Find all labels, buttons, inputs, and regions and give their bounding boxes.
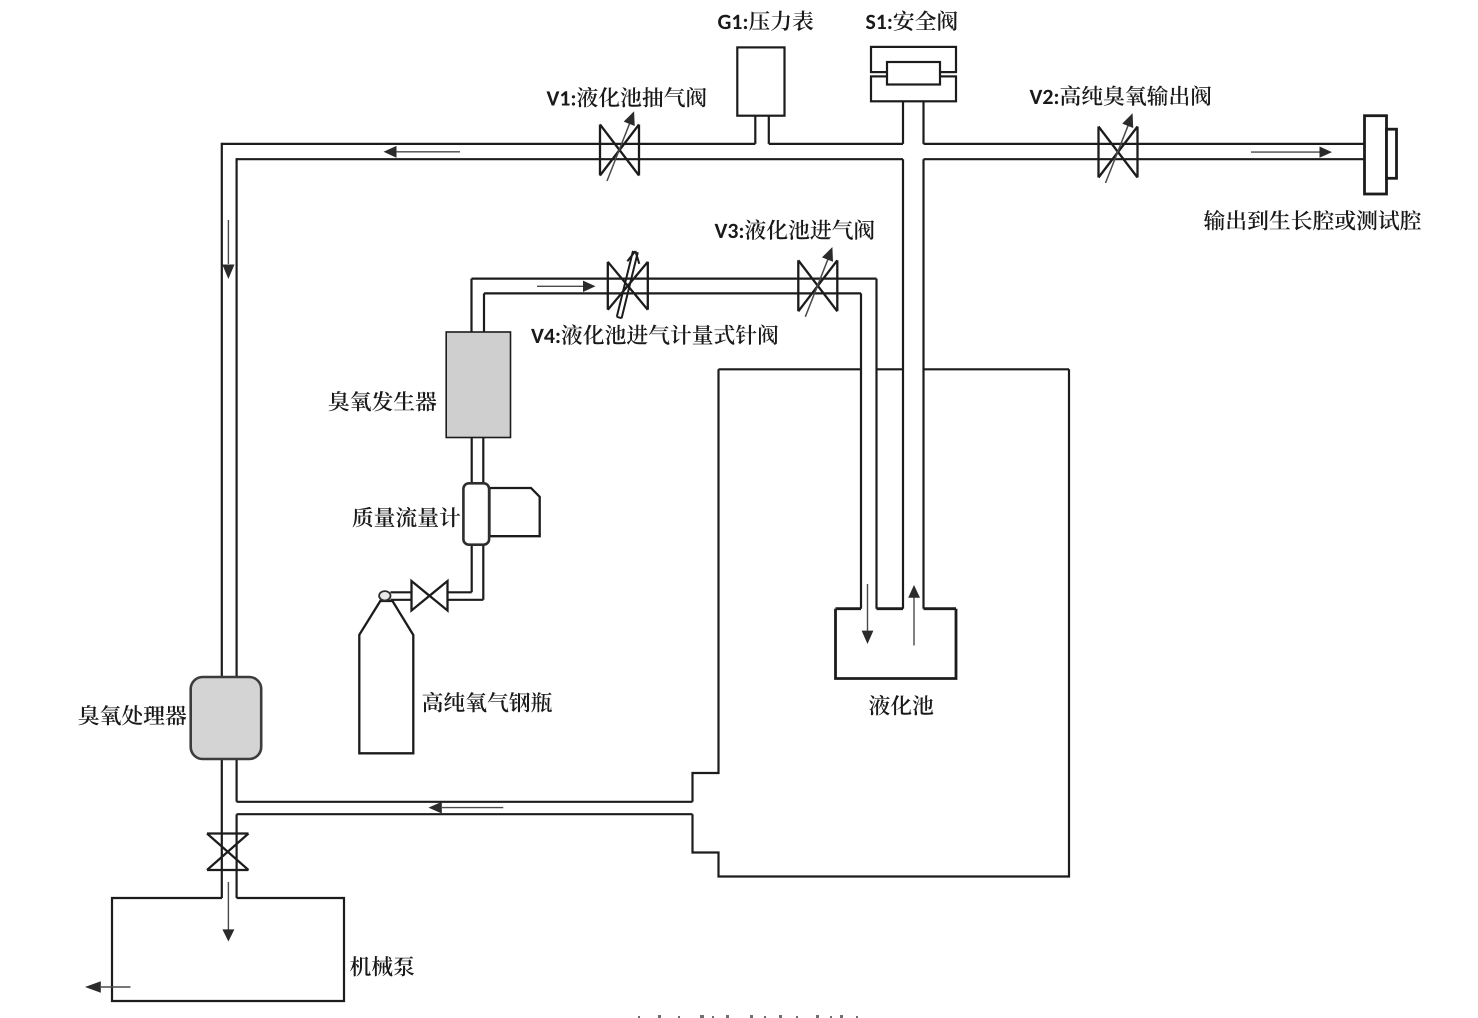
label 臭氧处理器: [79, 705, 187, 725]
label 输出到生长腔或测试腔: [1204, 210, 1421, 231]
needle valve V4: [608, 251, 648, 318]
label 机械泵: [350, 956, 414, 976]
flow arrow on bottom pipe (left): [442, 807, 503, 809]
oxygen cylinder bottle: [359, 601, 413, 753]
liquefaction pool box: [836, 609, 957, 679]
flange output port: [1365, 116, 1387, 194]
label 液化池: [869, 695, 933, 716]
label V2:高纯臭氧输出阀: [1030, 85, 1212, 106]
dewar vessel outline with notch: [719, 368, 1070, 370]
wire cylinder to riser pipe: [391, 592, 484, 600]
wire riser generator to mass flow meter: [472, 438, 484, 600]
mechanical pump box: [112, 898, 344, 1001]
wire bottom return pipe from liquefier to left pipe: [237, 802, 693, 814]
flow arrow out of pool (up): [913, 598, 915, 646]
wire G1 gauge stem: [755, 116, 769, 144]
cylinder shutoff valve: [412, 581, 448, 611]
label G1:压力表: [718, 11, 813, 32]
cylinder neck cap: [379, 591, 390, 600]
flow arrow on left pipe (down): [227, 220, 229, 264]
ozone destructor box: [191, 677, 262, 759]
flow arrow on top pipe (left): [396, 151, 460, 153]
wire S1 drop pipe down to pool (pipe B): [903, 101, 924, 608]
label V1:液化池抽气阀: [547, 87, 707, 108]
flow arrow into pool (down): [867, 584, 869, 631]
label V3:液化池进气阀: [715, 219, 875, 240]
valve V1: [600, 111, 639, 181]
main pipeline top horizontal (double line): [222, 143, 1365, 145]
label V4:液化池进气计量式针阀: [531, 324, 778, 345]
wire left vertical pipe to ozone destructor and pump: [222, 143, 237, 898]
safety valve S1 symbol: [871, 47, 956, 72]
pressure gauge G1 box: [737, 47, 784, 115]
valve V3: [798, 247, 837, 317]
label 高纯氧气钢瓶: [423, 692, 552, 713]
flow arrow to output flange (right): [1251, 151, 1320, 153]
label 质量流量计: [353, 507, 461, 528]
wire generator branch pipe (V4/V3 line): [472, 279, 877, 294]
mass flow meter side box: [490, 488, 540, 536]
flow arrow into pump (down): [227, 882, 229, 930]
label 臭氧发生器: [329, 391, 437, 411]
ozone generator box: [446, 332, 510, 438]
cropped figure caption glyph tips at bottom edge: [638, 1015, 858, 1018]
valve V2: [1099, 113, 1138, 183]
wire branch pipe down into liquefaction pool (pipe A): [861, 279, 877, 609]
mass flow meter body: [463, 483, 489, 544]
label S1:安全阀: [866, 11, 957, 31]
flow arrow pump exhaust (left): [101, 986, 131, 988]
pump inlet valve (vertical bowtie): [207, 834, 249, 871]
flow arrow on branch pipe (right): [537, 285, 584, 287]
